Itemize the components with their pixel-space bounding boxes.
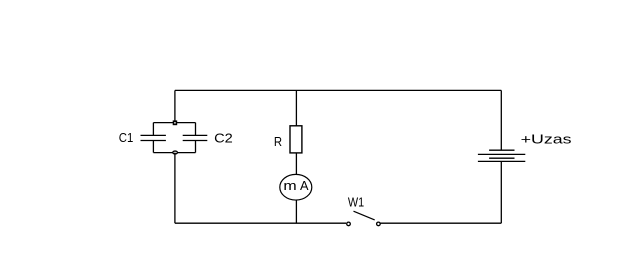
ammeter U1 [280,174,312,200]
wire top bus [175,89,501,91]
wire bottom bus left [175,222,346,224]
resistor R [290,126,302,153]
node top junction [174,121,177,124]
switch W1 [347,211,381,226]
wire ammeter to bottom bus [295,200,297,223]
wire left branch upper [174,90,176,122]
capacitor C1 [141,123,166,153]
svg-text:R: R [274,134,282,149]
wire middle branch upper [295,90,297,126]
svg-text:C2: C2 [214,131,233,146]
wire capacitor box top edge [153,122,195,124]
wire resistor to ammeter [295,153,297,175]
wire left branch lower [174,153,176,224]
node bottom junction [173,151,178,154]
svg-text:m: m [283,178,296,193]
label mA [283,178,308,193]
svg-text:A: A [300,178,309,193]
wire right branch upper [500,90,502,150]
svg-text:W1: W1 [348,194,364,209]
wire bottom bus right [380,222,501,224]
svg-text:+Uzas: +Uzas [521,131,573,146]
capacitor C2 [183,123,208,153]
battery BT1 [478,150,525,161]
svg-text:C1: C1 [119,130,134,145]
wire right branch lower [500,161,502,223]
wire capacitor box bottom edge [153,152,195,154]
